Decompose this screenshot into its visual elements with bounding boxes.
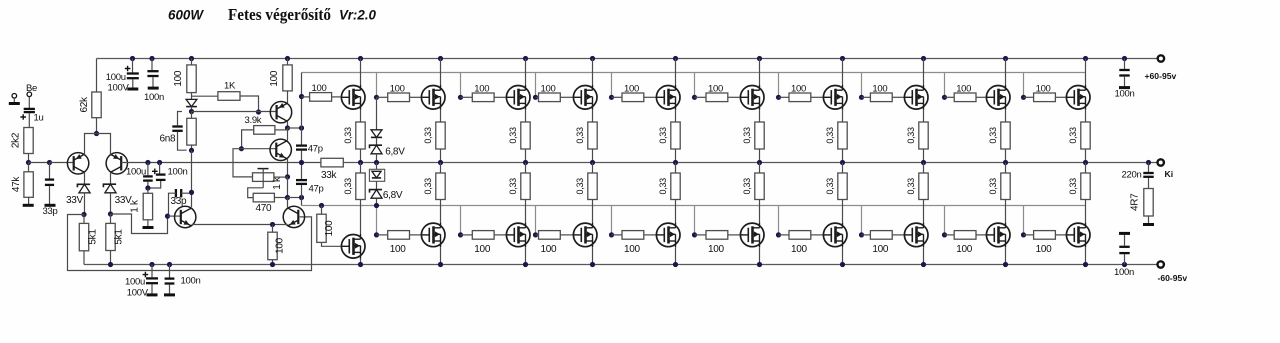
mosfet B1 (bottom row): [341, 235, 365, 259]
node output rail col 8: [921, 160, 926, 165]
resistor 100 (Q3 emitter): [287, 59, 289, 65]
mosfet M10 (top row N-channel): [1066, 86, 1090, 110]
wire 0.33 to output rail M7: [842, 149, 844, 163]
wire gate stub M5: [611, 73, 613, 98]
node 33p tap on collector: [189, 190, 194, 195]
resistor 100 gate M1: [302, 96, 310, 98]
wire 100 to M3 gate: [494, 96, 506, 98]
wire gate stub M2: [376, 73, 378, 98]
wire drain B3 to V- rail: [525, 247, 527, 264]
mosfet M7 (top row N-channel): [823, 86, 847, 110]
wire 0.33 to output rail M2: [440, 149, 442, 163]
wire Q4 emitter down: [287, 159, 289, 177]
wire zener to node: [110, 193, 112, 214]
node top rail 100n tap: [149, 56, 154, 61]
wire node to 47p chain: [288, 127, 302, 129]
wire drain B9 to V- rail: [1005, 247, 1007, 264]
svg-text:0,33: 0,33: [423, 127, 433, 144]
node drain M1 top rail: [358, 56, 363, 61]
wire 5k1 to V- rail: [110, 251, 112, 265]
svg-text:0,33: 0,33: [343, 178, 353, 195]
capacitor 33p input: [49, 163, 51, 179]
wire gate stub M6: [694, 73, 696, 98]
wire feedback line Q2 base to 33k: [121, 162, 321, 164]
node drain B10 V- rail: [1083, 262, 1088, 267]
svg-text:4R7: 4R7: [1130, 193, 1141, 211]
svg-text:100: 100: [956, 244, 973, 255]
wire drain M3: [525, 59, 527, 86]
resistor 100 gate B9: [945, 234, 955, 236]
resistor 0.33 source M10: [1081, 122, 1090, 149]
node gate B10: [1021, 232, 1026, 237]
svg-text:33p: 33p: [171, 196, 188, 207]
svg-text:100: 100: [474, 244, 491, 255]
svg-text:0,33: 0,33: [658, 178, 668, 195]
mosfet B3 (bottom row): [506, 223, 530, 247]
node drain M6 top rail: [757, 56, 762, 61]
mosfet M9 (top row N-channel): [986, 86, 1010, 110]
svg-text:2k2: 2k2: [11, 132, 22, 148]
svg-text:100: 100: [708, 244, 725, 255]
svg-text:100n: 100n: [168, 166, 188, 177]
resistor 100 gate M8: [862, 96, 871, 98]
wire drain B4 to V- rail: [592, 247, 594, 264]
svg-text:0,33: 0,33: [1068, 127, 1078, 144]
wire Be to C1: [28, 97, 30, 108]
wire 0.33 to output rail M9: [1005, 149, 1007, 163]
diode gate clamp top: [371, 130, 382, 138]
svg-text:100: 100: [872, 84, 887, 95]
node VAS top (Q3/Q4 collectors): [285, 125, 290, 130]
wire 0.33 to output rail M6: [759, 149, 761, 163]
mosfet B9 (bottom row): [986, 223, 1010, 247]
wire link to 47p chain bottom: [288, 197, 302, 199]
resistor 0.33 source M4: [588, 122, 597, 149]
wire Q3 collector to node: [287, 121, 289, 128]
node drain M2 top rail: [438, 56, 443, 61]
wire 0.33 to B9: [1005, 200, 1007, 223]
wire 0.33 to B2: [440, 200, 442, 223]
resistor 0.33 source M8: [919, 122, 928, 149]
wire to B1 gate: [322, 242, 341, 246]
zener 33V (Q1): [77, 184, 90, 187]
wire drain M1: [360, 59, 362, 86]
wire 100 to B9 gate: [976, 234, 986, 236]
svg-text:1K: 1K: [224, 81, 236, 92]
zener 6,8V top: [376, 137, 378, 145]
wire 0.33 to output rail M5: [675, 149, 677, 163]
svg-text:Ki: Ki: [1165, 169, 1174, 179]
node gate B9: [942, 232, 947, 237]
svg-text:3.9k: 3.9k: [245, 115, 262, 126]
wire 100 to M7 gate: [811, 96, 823, 98]
node output rail col 2: [438, 160, 443, 165]
svg-text:6,8V: 6,8V: [383, 190, 403, 201]
resistor 100 gate M5: [612, 96, 623, 98]
mosfet B2 (bottom row): [421, 223, 445, 247]
wire 0.33 to B1: [360, 200, 362, 235]
wire 100 to B10 gate: [1055, 234, 1066, 236]
node R100 V-: [270, 262, 275, 267]
wire source M1: [360, 110, 362, 122]
resistor 100 gate M7: [779, 96, 790, 98]
svg-text:0,33: 0,33: [742, 178, 752, 195]
wire source M9: [1005, 110, 1007, 122]
svg-text:100: 100: [390, 244, 407, 255]
wire 47p to output rail: [301, 151, 303, 179]
transistor Q1 (PNP): [67, 153, 88, 174]
input terminal (cold): [12, 94, 17, 99]
wire to Q1 base: [50, 162, 74, 164]
wire R100 to Q3 emitter: [287, 91, 289, 103]
svg-text:100n: 100n: [144, 92, 164, 103]
wire 100 to B8 gate: [892, 234, 904, 236]
wire to M1 gate: [332, 96, 341, 98]
node gate M7: [776, 95, 781, 100]
node drain B8 V- rail: [921, 262, 926, 267]
wire gate stub B10: [1023, 206, 1025, 235]
svg-text:0,33: 0,33: [658, 127, 668, 144]
node gate M10: [1021, 95, 1026, 100]
resistor 0.33 source M2: [436, 122, 445, 149]
wire source M4: [592, 110, 594, 122]
mosfet M8 (top row N-channel): [904, 86, 928, 110]
node Q4 base: [239, 146, 244, 151]
svg-text:0,33: 0,33: [742, 127, 752, 144]
ground 4R7: [1148, 216, 1150, 224]
resistor 2k2: [24, 128, 33, 154]
svg-text:+60-95v: +60-95v: [1145, 71, 1177, 81]
resistor 100 gate B5: [612, 234, 623, 236]
resistor 100 gate M4: [536, 96, 539, 98]
svg-text:100V: 100V: [127, 288, 149, 299]
wire 100 to M8 gate: [892, 96, 904, 98]
wire 3.9k right to collector node: [275, 129, 288, 131]
svg-text:33p: 33p: [43, 206, 58, 217]
wire 470 right lead: [274, 197, 287, 199]
wire node to Q4 base: [241, 148, 276, 150]
svg-text:0,33: 0,33: [575, 178, 585, 195]
wire Q2 collector down: [110, 172, 112, 183]
wire gate stub M8: [861, 73, 863, 98]
wire Q5 collector up: [287, 198, 289, 208]
svg-text:100: 100: [541, 84, 556, 95]
wire trimmer right lead: [274, 176, 288, 178]
capacitor 100u 100V bottom: [151, 265, 153, 278]
svg-text:0,33: 0,33: [825, 127, 835, 144]
svg-text:100: 100: [624, 244, 641, 255]
node gate M5: [609, 95, 614, 100]
node drain M7 top rail: [840, 56, 845, 61]
svg-text:0,33: 0,33: [508, 127, 518, 144]
resistor 0.33 source B6: [759, 163, 761, 174]
wire negative supply rail: [84, 264, 1157, 266]
resistor 0.33 source B9: [1005, 163, 1007, 174]
node 47p chain / fb / 33k: [299, 160, 304, 165]
wire zener string top: [376, 97, 378, 130]
wire R100 to diode: [191, 93, 193, 100]
svg-text:6n8: 6n8: [160, 134, 177, 145]
wire 0.33 to B5: [675, 200, 677, 223]
svg-text:47p: 47p: [309, 184, 324, 195]
terminal -60-95v: [1158, 261, 1164, 267]
capacitor 1u: [24, 108, 35, 110]
capacitor 100n -rail: [1124, 254, 1126, 264]
node gate M2: [374, 95, 379, 100]
node Q6 base: [165, 214, 170, 219]
node output Zobel tap: [1146, 160, 1151, 165]
wire drain B10 to V- rail: [1085, 247, 1087, 264]
svg-text:1 k: 1 k: [129, 199, 140, 213]
node drain M4 top rail: [590, 56, 595, 61]
wire drain M2: [440, 59, 442, 86]
wire node to Q3 base: [192, 111, 277, 113]
wire source M8: [923, 110, 925, 122]
svg-text:0,33: 0,33: [825, 178, 835, 195]
wire gate stub B4: [535, 206, 537, 235]
mosfet M5 (top row N-channel): [656, 86, 680, 110]
svg-text:33k: 33k: [321, 170, 338, 181]
resistor 100 gate B6: [695, 234, 707, 236]
wire 100 to B7 gate: [811, 234, 823, 236]
mosfet M3 (top row N-channel): [506, 86, 530, 110]
node drain B2 V- rail: [438, 262, 443, 267]
svg-text:100: 100: [872, 244, 889, 255]
node 47p chain top link: [299, 125, 304, 130]
wire drain M9: [1005, 59, 1007, 86]
resistor 0.33 source B3: [525, 163, 527, 174]
node +rail 100n: [1122, 56, 1127, 61]
wire 0.33 to output rail M1: [360, 149, 362, 163]
wire Q4 collector up: [287, 128, 289, 141]
wire 5k1 to V- rail: [83, 251, 85, 265]
node driver emitters: [270, 222, 275, 227]
svg-text:Vr:2.0: Vr:2.0: [339, 8, 376, 23]
terminal +60-95v: [1158, 55, 1164, 61]
wire Q4 base to trimmer left: [233, 149, 253, 177]
svg-text:100: 100: [791, 84, 806, 95]
node zener string bottom bus: [374, 203, 379, 208]
svg-text:47k: 47k: [11, 176, 22, 193]
resistor 0.33 source M3: [521, 122, 530, 149]
wire gate stub B9: [944, 206, 946, 235]
wire 47p chain vertical top: [301, 97, 303, 145]
wire source M7: [842, 110, 844, 122]
svg-text:Be: Be: [26, 83, 37, 94]
resistor parallel 6n8: [191, 112, 193, 119]
wire 100 to M10 gate: [1055, 96, 1066, 98]
node 5k1 V-: [108, 262, 113, 267]
node gate B4: [533, 232, 538, 237]
svg-text:100: 100: [1036, 244, 1053, 255]
svg-text:100: 100: [390, 84, 405, 95]
wire down to Q6 collector: [191, 150, 193, 207]
resistor 100 gate M9: [945, 96, 955, 98]
boxed diode gate clamp bottom: [376, 163, 378, 170]
svg-text:0,33: 0,33: [575, 127, 585, 144]
wire Q4 emitter chain down: [287, 177, 289, 198]
svg-text:Fetes végerősítő: Fetes végerősítő: [228, 5, 331, 24]
resistor 100 gate M3: [461, 96, 473, 98]
mosfet M4 (top row N-channel): [573, 86, 597, 110]
svg-text:1u: 1u: [34, 113, 44, 124]
svg-text:100: 100: [624, 84, 639, 95]
svg-text:100: 100: [708, 84, 723, 95]
resistor 100 gate B2: [377, 234, 388, 236]
svg-text:0,33: 0,33: [423, 178, 433, 195]
node output rail col 5: [673, 160, 678, 165]
ground 47k: [28, 197, 30, 205]
node output rail col 4: [590, 160, 595, 165]
svg-text:100u: 100u: [106, 72, 126, 83]
zener 33V (Q2): [103, 184, 116, 187]
node gate M8: [859, 95, 864, 100]
wire zener to node: [84, 193, 86, 215]
wire 100 to B6 gate: [728, 234, 740, 236]
wire top supply rail: [97, 58, 1158, 60]
svg-text:100u: 100u: [126, 166, 146, 177]
node drain B5 V- rail: [673, 262, 678, 267]
wire 0.33 to B3: [525, 200, 527, 223]
wire Q6 emitter line: [192, 224, 273, 226]
svg-text:47p: 47p: [308, 144, 323, 155]
node fb caps to 1k: [145, 185, 150, 190]
node gate M9: [942, 95, 947, 100]
resistor 5k1 (Q2): [110, 214, 112, 223]
node gate B5: [609, 232, 614, 237]
wire gate stub B2: [376, 206, 378, 235]
transistor Q3 (PNP): [270, 102, 291, 123]
svg-text:62k: 62k: [79, 96, 90, 113]
wire 0.33 to B10: [1085, 200, 1087, 223]
node trimmer right: [285, 174, 290, 179]
wire 3.9k left to Q4 base node: [242, 130, 254, 149]
wire bottom gate bus: [302, 205, 1086, 207]
svg-text:100n: 100n: [1114, 267, 1134, 278]
capacitor 100n top: [151, 59, 153, 71]
node top rail 100u tap: [130, 56, 135, 61]
wire zener to output rail: [376, 154, 378, 163]
node gate B7: [776, 232, 781, 237]
wire gate stub M9: [944, 73, 946, 98]
node 470 / Q5 collector: [285, 195, 290, 200]
wire zener to bottom bus: [376, 198, 378, 205]
wire to Q6 base: [168, 215, 181, 217]
ground input terminal: [13, 98, 15, 103]
svg-text:470: 470: [256, 203, 273, 214]
node drain M3 top rail: [523, 56, 528, 61]
capacitor 100n bottom: [169, 265, 171, 278]
mosfet M1 (top row N-channel): [341, 86, 365, 110]
svg-text:100: 100: [324, 220, 335, 237]
wire 100 to M4 gate: [560, 96, 573, 98]
capacitor 100u 100V top: [132, 59, 134, 73]
resistor 0.33 source M9: [1001, 122, 1010, 149]
node output rail col 10: [1083, 160, 1088, 165]
svg-text:0,33: 0,33: [343, 127, 353, 144]
node gate M3: [458, 95, 463, 100]
node V- 100n tap: [167, 262, 172, 267]
wire gate stub B5: [611, 206, 613, 235]
wire gate stub B7: [778, 206, 780, 235]
mosfet B10 (bottom row): [1066, 223, 1090, 247]
resistor 47k: [28, 163, 30, 172]
wire drain M4: [592, 59, 594, 86]
transistor Q5 (NPN mirrored): [283, 206, 304, 227]
wire source M6: [759, 110, 761, 122]
resistor 0.33 source B5: [675, 163, 677, 174]
wire drain B1 to V- rail: [360, 259, 362, 265]
svg-text:100: 100: [274, 237, 285, 254]
mosfet B7 (bottom row): [823, 223, 847, 247]
wire gate stub B6: [694, 206, 696, 235]
node drain M10 top rail: [1083, 56, 1088, 61]
node 6n8 bottom: [191, 145, 193, 150]
node drain B6 V- rail: [757, 262, 762, 267]
resistor 100 driver emitters: [272, 225, 274, 233]
wire C1 to R 2k2: [28, 113, 30, 127]
resistor 100 gate B3: [461, 234, 473, 236]
wire 0.33 to output rail M4: [592, 149, 594, 163]
node V- 100u tap: [149, 262, 154, 267]
wire drain M6: [759, 59, 761, 86]
node output rail col 1: [358, 160, 363, 165]
node 1K / Q3 base line: [256, 109, 261, 114]
wire Y to Q2 emitter: [97, 134, 111, 155]
wire gate stub M3: [460, 73, 462, 98]
node gate B2: [374, 232, 379, 237]
node -rail 100n: [1122, 262, 1127, 267]
capacitor 100u feedback: [147, 163, 149, 176]
mosfet B8 (bottom row): [904, 223, 928, 247]
wire drain B2 to V- rail: [440, 247, 442, 264]
resistor 470: [253, 193, 274, 202]
svg-text:220n: 220n: [1122, 169, 1142, 180]
resistor 0.33 source B10: [1085, 163, 1087, 174]
transistor Q4 bias (NPN): [270, 139, 291, 160]
wire node to 33p node: [29, 162, 50, 164]
diode D1: [186, 99, 197, 106]
capacitor 47p lower: [296, 179, 307, 181]
ground 33p: [45, 204, 56, 207]
node gate B3: [458, 232, 463, 237]
wire 1K to base line: [240, 96, 259, 112]
zener 6,8V bottom: [376, 181, 378, 189]
wire Q5 emitter left: [273, 224, 288, 226]
resistor 0.33 source B4: [592, 163, 594, 174]
wire drain B5 to V- rail: [675, 247, 677, 264]
wire source M5: [675, 110, 677, 122]
wire gate stub B8: [861, 206, 863, 235]
mosfet M6 (top row N-channel): [740, 86, 764, 110]
node output rail col 3: [523, 160, 528, 165]
node output rail col 7: [840, 160, 845, 165]
svg-text:100: 100: [269, 70, 280, 87]
wire 100 to M6 gate: [728, 96, 740, 98]
node Q1 collector: [81, 212, 86, 217]
wire 100 to M5 gate: [644, 96, 656, 98]
node drain M8 top rail: [921, 56, 926, 61]
resistor 4R7 Zobel: [1148, 178, 1150, 189]
svg-text:0,33: 0,33: [508, 178, 518, 195]
node top rail R100 chain: [189, 56, 194, 61]
node zener string output rail: [374, 160, 379, 165]
wire 62k to emitter Y: [96, 118, 98, 134]
wire Y to Q1 emitter: [85, 134, 97, 155]
wire 100 to B3 gate: [494, 234, 506, 236]
svg-text:33V: 33V: [66, 195, 84, 206]
wire top bus drop to VAS node: [301, 73, 303, 97]
